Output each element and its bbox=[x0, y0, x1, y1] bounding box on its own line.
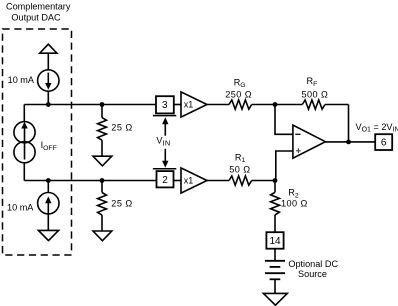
svg-text:Complementary: Complementary bbox=[6, 2, 71, 12]
svg-text:25 Ω: 25 Ω bbox=[111, 198, 132, 208]
svg-text:Output DAC: Output DAC bbox=[11, 12, 61, 22]
svg-text:14: 14 bbox=[269, 236, 281, 247]
svg-text:Optional DC: Optional DC bbox=[288, 259, 338, 269]
svg-text:250 Ω: 250 Ω bbox=[225, 90, 252, 100]
svg-text:2: 2 bbox=[162, 175, 168, 186]
svg-text:6: 6 bbox=[381, 138, 387, 149]
svg-text:50 Ω: 50 Ω bbox=[229, 164, 250, 174]
svg-text:Source: Source bbox=[298, 269, 327, 279]
svg-text:10 mA: 10 mA bbox=[8, 75, 35, 85]
svg-text:VIN: VIN bbox=[156, 136, 170, 148]
svg-text:x1: x1 bbox=[184, 99, 194, 109]
svg-text:500 Ω: 500 Ω bbox=[302, 89, 329, 99]
svg-text:100 Ω: 100 Ω bbox=[281, 198, 308, 208]
svg-text:3: 3 bbox=[162, 100, 168, 111]
svg-text:x1: x1 bbox=[184, 176, 194, 186]
svg-text:25 Ω: 25 Ω bbox=[111, 123, 132, 133]
svg-text:10 mA: 10 mA bbox=[7, 203, 34, 213]
